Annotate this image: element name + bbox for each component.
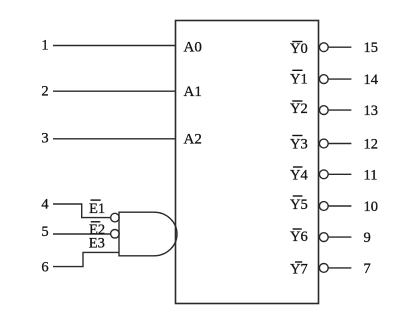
svg-text:Y1: Y1 (290, 71, 308, 87)
wire pin5 to E2 bubble (53, 233, 111, 235)
inverter bubble on E1 input (111, 213, 120, 222)
svg-text:Y4: Y4 (290, 168, 308, 184)
wire pin2 to A1 (53, 90, 176, 92)
svg-text:13: 13 (364, 103, 379, 119)
svg-text:E3: E3 (89, 235, 105, 251)
svg-text:Y0: Y0 (290, 41, 308, 57)
svg-text:15: 15 (364, 40, 379, 56)
svg-text:7: 7 (364, 261, 371, 277)
wire pin1 to A0 (53, 45, 176, 47)
wire pin4 to E1 bubble (53, 204, 111, 218)
svg-text:10: 10 (364, 199, 379, 215)
svg-text:3: 3 (41, 131, 48, 147)
AND gate G1 (119, 212, 177, 256)
svg-text:E1: E1 (89, 201, 105, 217)
inverter bubble on E2 input (111, 230, 120, 239)
svg-text:1: 1 (41, 37, 48, 53)
decoder chip U1 body (176, 21, 319, 304)
svg-text:5: 5 (41, 224, 48, 240)
svg-text:A1: A1 (184, 84, 202, 100)
svg-text:14: 14 (364, 72, 379, 88)
svg-text:Y6: Y6 (290, 229, 308, 245)
svg-text:Y2: Y2 (290, 101, 308, 117)
svg-text:12: 12 (364, 137, 379, 153)
svg-text:6: 6 (41, 260, 48, 276)
svg-text:Y7: Y7 (290, 262, 308, 278)
svg-text:A0: A0 (184, 39, 202, 55)
overbar E2 (91, 221, 101, 223)
svg-text:2: 2 (41, 84, 48, 100)
svg-text:9: 9 (364, 230, 371, 246)
wire pin6 to E3 (53, 252, 119, 266)
svg-text:Y3: Y3 (290, 137, 308, 153)
svg-text:11: 11 (364, 167, 378, 183)
svg-text:A2: A2 (184, 132, 202, 148)
svg-text:Y5: Y5 (290, 197, 308, 213)
wire pin3 to A2 (53, 138, 176, 140)
overbar E1 (91, 199, 101, 201)
svg-text:4: 4 (41, 197, 49, 213)
